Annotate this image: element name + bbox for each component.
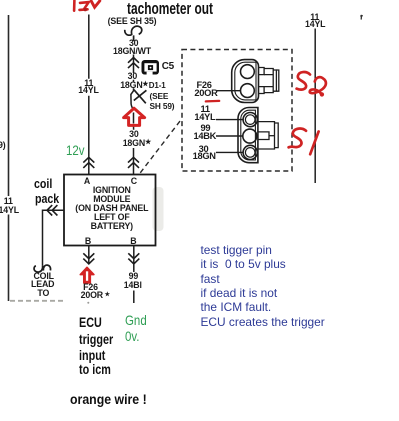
wire to 2-pin connector — [217, 90, 241, 92]
stray dot — [87, 302, 89, 304]
label COIL LEAD TO — [33, 272, 53, 281]
wire center column (tachometer/pin C feed) — [133, 55, 135, 82]
wire pin B left (ECU trigger) — [88, 246, 90, 264]
tiny cropped glyph top right — [360, 15, 363, 20]
label C5 — [162, 62, 174, 72]
label 14Bl — [124, 281, 142, 290]
label 20OR star — [81, 291, 103, 300]
connector chevrons above pin A — [83, 157, 94, 168]
wire right column 14YL — [314, 29, 316, 184]
watermark — [153, 187, 164, 231]
label 14YL (right wire) — [305, 20, 325, 29]
connector chevrons below left B (point down) — [83, 253, 94, 264]
wire left column (pin A feed) — [88, 15, 90, 175]
connector chevrons below right B (point down) — [128, 253, 139, 264]
label 30 (18GN/WT) — [129, 39, 139, 48]
connector S2 lock tab — [259, 68, 279, 94]
label 18GN/WT — [113, 47, 151, 56]
label (SEE — [150, 92, 169, 100]
red note S2 — [297, 72, 326, 94]
pin label A — [84, 177, 90, 186]
red underline under 20OR — [206, 100, 219, 103]
label 99 — [129, 272, 139, 281]
module text — [93, 186, 131, 195]
wire below 14Bl label — [133, 291, 135, 304]
splice X D1-1 — [134, 90, 147, 104]
dashed leader diagonal — [140, 121, 180, 173]
pin label B left — [85, 237, 91, 246]
red arrow (small, F26) — [80, 267, 94, 283]
ignition module box — [64, 175, 156, 246]
connector chevrons coil branch (point left) — [47, 205, 57, 215]
label 11 (right wire) — [310, 13, 319, 22]
wire left border vertical — [8, 15, 10, 301]
label 30 (18GN) — [128, 72, 138, 81]
connector S1 (3-pin) body — [238, 108, 258, 163]
label 18GN star 2 — [123, 139, 145, 148]
dashed connector detail box — [182, 50, 292, 172]
connector icon C5 — [142, 60, 160, 75]
note Gnd 0v green — [125, 313, 147, 327]
wires to 3-pin connector — [216, 120, 243, 153]
label SH 59) — [150, 102, 175, 110]
label tachometer out — [127, 0, 213, 17]
connector S2 (2-pin) body — [232, 60, 259, 103]
label 18GN star — [120, 81, 142, 90]
wire-continues curl (top) — [125, 26, 142, 41]
note blue test trigger — [201, 245, 272, 257]
wire-continues curl (coil lead) — [34, 265, 50, 272]
label 11 (left wire) — [84, 79, 93, 88]
note coil pack — [34, 178, 52, 191]
wire pin B right (ground) — [133, 246, 135, 273]
connector chevrons above pin C — [128, 157, 139, 168]
label 14YL (left wire) — [78, 86, 98, 95]
note 12v green — [66, 143, 85, 157]
label 9) cropped — [0, 141, 6, 150]
label F26 (below module) — [83, 283, 98, 292]
note ECU trigger input to icm — [79, 316, 102, 330]
label (SEE SH 35) — [108, 17, 157, 26]
note orange wire ! — [70, 392, 147, 406]
label 30 (below splice) — [129, 130, 139, 139]
label 14YL (border wire) — [0, 206, 19, 215]
label 11 (border wire) — [4, 197, 13, 206]
red arrow (big, at splice) — [124, 108, 145, 125]
pin label B right — [130, 237, 136, 246]
connector S1 lock tab — [258, 122, 278, 149]
torn scan edge dashes — [10, 300, 63, 302]
pin label C — [131, 177, 137, 186]
wire coil-pack branch — [43, 210, 65, 265]
red note S1 — [289, 129, 319, 155]
dashed box labels — [197, 81, 212, 90]
connector chevrons above C5 — [128, 58, 139, 69]
red handwriting 12V (top) — [74, 1, 100, 11]
label D1-1 — [149, 82, 166, 90]
